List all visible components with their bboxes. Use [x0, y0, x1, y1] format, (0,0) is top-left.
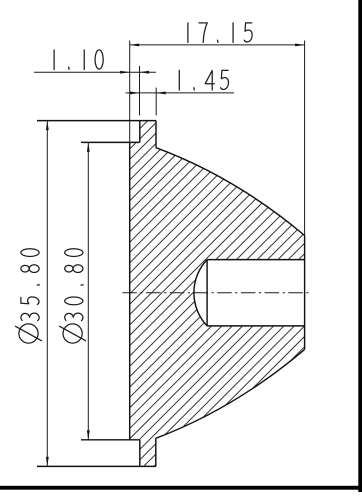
left face: [129, 142, 131, 439]
arrow 1.10 right outside: [140, 71, 150, 74]
text 1.45: [179, 70, 228, 90]
bore dome arc: [194, 260, 207, 326]
arrow dia35.80 bottom: [46, 457, 49, 467]
bottom edge / dia35 ext bottom: [37, 465, 156, 467]
arrow 1.45 right outside: [156, 91, 166, 94]
dim dia30.80 line: [87, 142, 89, 439]
arrow dia35.80 top: [46, 121, 49, 131]
centerline: [122, 292, 311, 294]
text 17.15: [188, 23, 252, 43]
text 1.10: [54, 50, 103, 70]
sheet border right bar: [358, 0, 362, 492]
dim 1.10 ext right: [139, 66, 141, 115]
dim 17.15 line: [130, 44, 305, 46]
dia symbol of 30.80: [60, 324, 86, 343]
arrow dia30.80 bottom: [87, 430, 90, 440]
arrow 17.15 left: [130, 43, 140, 46]
dim 17.15 ext right: [304, 41, 306, 236]
top step / dia30 ext top: [81, 141, 140, 143]
dim dia35.80 line: [46, 121, 48, 467]
arrow 17.15 right: [295, 43, 305, 46]
top tab left face: [139, 121, 141, 143]
sheet border bottom bar: [0, 486, 362, 490]
bore bottom edge: [207, 325, 305, 327]
dim 1.10 line: [34, 71, 156, 73]
arrow 1.45 left outside: [130, 91, 140, 94]
bottom tab left face: [139, 440, 141, 467]
dim 1.45 ext right: [155, 88, 157, 116]
dim 1.45 line: [126, 92, 235, 94]
text dia30.80 digits (rotated): [65, 249, 84, 321]
bore shoulder: [206, 260, 208, 326]
bottom curved surface: [156, 349, 305, 438]
top edge / dia35 ext top: [37, 120, 156, 122]
text dia35.80 digits (rotated): [21, 249, 40, 321]
right face: [304, 236, 306, 350]
arrow dia30.80 top: [87, 142, 90, 152]
arrow 1.10 left outside: [120, 71, 130, 74]
bottom tab right face: [155, 438, 157, 466]
bore top edge: [207, 259, 305, 261]
top tab right face: [155, 121, 157, 148]
top curved surface: [156, 148, 305, 236]
dia symbol of 35.80: [16, 324, 42, 343]
hatching (section lines): [0, 110, 362, 475]
bottom step / dia30 ext bottom: [81, 439, 140, 441]
dim 17.15 ext left: [129, 41, 131, 143]
